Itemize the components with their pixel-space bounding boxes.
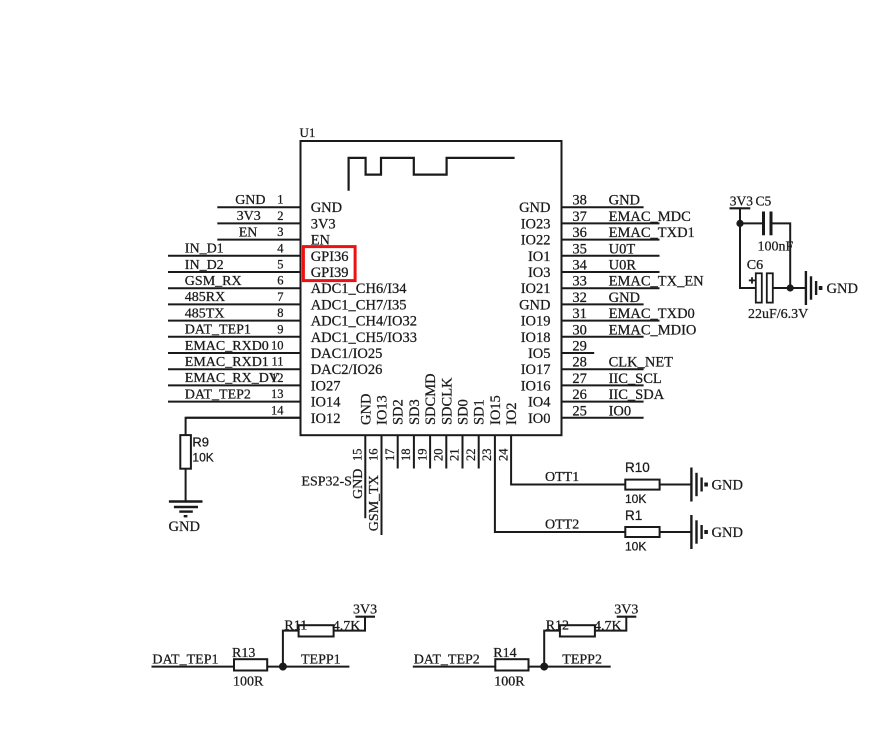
svg-text:DAT_TEP2: DAT_TEP2 [414,652,480,667]
ground at OTT2 [691,515,707,549]
pin 20 SDCLK bottom stub + labels [432,377,456,469]
pin 27 IIC_SCL wire + labels [521,371,662,395]
R12 value 4.7K [594,619,622,634]
svg-text:ADC1_CH4/IO32: ADC1_CH4/IO32 [311,314,417,330]
R11 value 4.7K [333,619,361,634]
pin 18 SD3 bottom stub + labels [399,399,423,468]
pin 14 NC wire + labels [186,403,341,427]
svg-text:EMAC_RX_DV: EMAC_RX_DV [185,371,279,386]
svg-text:14: 14 [271,403,284,417]
svg-text:GND: GND [712,478,743,494]
pin 36 EMAC_TXD1 wire + labels [521,225,695,249]
svg-text:R11: R11 [284,619,307,634]
wire R11 to 3V3 [334,617,365,631]
svg-text:IO16: IO16 [521,378,551,394]
svg-text:5: 5 [277,258,283,272]
svg-text:28: 28 [572,355,587,371]
svg-text:C5: C5 [756,194,772,209]
svg-text:29: 29 [572,339,587,355]
pin 19 SDCMD bottom stub + labels [415,373,439,468]
wire R9 to ground [185,469,187,502]
svg-text:IO15: IO15 [488,395,504,425]
pin 11 EMAC_RXD1 wire + labels [168,355,382,379]
svg-text:30: 30 [572,322,587,338]
power symbol 3V3 at R11 [353,603,377,618]
svg-text:18: 18 [399,449,413,462]
svg-text:22: 22 [464,449,478,462]
svg-text:IO19: IO19 [521,314,551,330]
pin 35 U0T wire + labels [528,241,660,264]
svg-text:33: 33 [572,274,587,290]
net label OTT2 [545,518,579,533]
svg-text:38: 38 [572,193,587,209]
node junction TEPP1 [279,663,287,671]
svg-text:CLK_NET: CLK_NET [609,355,674,371]
R9 value 10K [192,451,213,465]
svg-text:SD0: SD0 [456,399,472,425]
svg-text:IO2: IO2 [504,402,520,425]
svg-text:IO5: IO5 [528,346,551,362]
svg-text:IO21: IO21 [521,281,551,297]
pin 33 EMAC_TX_EN wire + labels [521,274,704,298]
svg-text:U0T: U0T [609,241,636,257]
svg-text:R1: R1 [625,508,642,523]
svg-text:IO4: IO4 [528,395,551,411]
net label TEPP1 [301,652,341,667]
svg-text:35: 35 [572,241,587,257]
wire C5 right leg [773,223,791,288]
svg-text:ADC1_CH5/IO33: ADC1_CH5/IO33 [311,330,417,346]
svg-text:GND: GND [519,200,550,216]
svg-text:GSM_RX: GSM_RX [185,274,242,289]
svg-text:100R: 100R [494,675,525,690]
svg-text:EMAC_RXD1: EMAC_RXD1 [185,355,269,370]
svg-text:OTT2: OTT2 [545,518,579,533]
ESP32-S part value label [301,474,352,489]
R14 value 100R [494,675,525,690]
plus sign of C6 [749,277,756,283]
svg-text:DAC2/IO26: DAC2/IO26 [311,362,383,378]
wire node to ground [790,287,806,289]
svg-text:3V3: 3V3 [353,603,377,618]
svg-text:100nF: 100nF [758,240,794,255]
wire R13 to TEPP1 node [267,666,349,668]
svg-text:IO17: IO17 [521,362,551,378]
svg-text:SD3: SD3 [407,399,423,425]
pin 34 U0R wire + labels [528,258,660,282]
svg-text:GND: GND [235,193,265,208]
net label DAT_TEP1 [152,652,218,667]
svg-text:EMAC_TXD0: EMAC_TXD0 [609,306,695,322]
svg-text:10K: 10K [625,540,646,554]
svg-text:EMAC_MDIO: EMAC_MDIO [609,322,697,338]
svg-text:GND: GND [827,281,858,297]
pin 31 EMAC_TXD0 wire + labels [521,306,695,330]
GND label at OTT2 [712,525,743,541]
pin 3 EN wire + labels [217,225,330,249]
svg-text:IO3: IO3 [528,265,551,281]
svg-text:GSM_TX: GSM_TX [367,475,382,531]
svg-text:22uF/6.3V: 22uF/6.3V [748,307,808,322]
resistor R10 [625,480,659,490]
svg-text:ADC1_CH7/I35: ADC1_CH7/I35 [311,297,407,313]
svg-text:37: 37 [572,209,587,225]
svg-text:U0R: U0R [609,258,637,274]
R11 label [284,619,307,634]
svg-text:EMAC_TX_EN: EMAC_TX_EN [609,274,705,290]
svg-text:IO1: IO1 [528,249,551,265]
svg-text:U1: U1 [300,125,316,140]
U1 reference designator [300,125,316,140]
pin 26 IIC_SDA wire + labels [528,387,665,411]
wire R12 to 3V3 [595,617,626,631]
net label GSM_TX on pin 16 [367,475,382,531]
svg-text:IIC_SCL: IIC_SCL [609,371,662,387]
svg-text:19: 19 [415,449,429,462]
wire C6 to ground node [773,287,790,289]
svg-text:34: 34 [572,258,587,274]
wire pin23 to OTT2 row [495,435,625,532]
pin 21 SD0 bottom stub + labels [448,399,472,468]
svg-text:23: 23 [480,449,494,462]
pin 32 GND wire + labels [519,290,644,314]
node junction C5/C6/GND [787,284,794,291]
R10 value 10K [625,492,646,506]
red highlight box around GPI36/GPI39 [303,247,355,281]
svg-text:IO0: IO0 [528,411,551,427]
wire 3V3 to C5 [740,222,762,224]
svg-text:GND: GND [609,193,640,209]
svg-text:3V3: 3V3 [237,209,261,224]
ground at C6 [806,271,822,305]
svg-text:IO13: IO13 [375,395,391,425]
svg-text:3V3: 3V3 [730,194,753,209]
pin 16 IO13 bottom stub + labels [367,395,391,535]
net label TEPP2 [562,652,602,667]
svg-text:R14: R14 [493,646,516,661]
svg-text:C6: C6 [747,258,763,273]
svg-text:25: 25 [572,403,587,419]
svg-text:ESP32-S: ESP32-S [301,474,352,489]
ground at OTT1 [691,468,707,502]
svg-text:3V3: 3V3 [614,603,638,618]
resistor R11 [299,625,334,636]
svg-text:GND: GND [311,200,342,216]
net label GND on pin 15 [351,469,366,499]
svg-text:TEPP1: TEPP1 [301,652,341,667]
svg-text:GPI36: GPI36 [311,249,349,265]
svg-text:485TX: 485TX [185,306,225,321]
pin 13 DAT_TEP2 wire + labels [168,387,341,411]
svg-text:OTT1: OTT1 [545,470,579,485]
power symbol 3V3 top right [730,194,754,224]
svg-text:1: 1 [277,193,283,207]
svg-text:3: 3 [277,225,283,239]
svg-text:27: 27 [572,371,587,387]
GND label at OTT1 [712,478,743,494]
svg-text:6: 6 [277,274,283,288]
node junction at 3V3 [736,220,743,227]
svg-text:485RX: 485RX [185,290,225,305]
svg-text:GND: GND [712,525,743,541]
pin 4 IN_D1 wire + labels [168,241,349,264]
GND label below R9 [169,519,200,535]
svg-text:IO27: IO27 [311,378,341,394]
svg-text:16: 16 [367,449,381,462]
wire pin24 to OTT1 row [511,435,625,484]
net label DAT_TEP2 [414,652,480,667]
svg-text:31: 31 [572,306,587,322]
svg-text:R12: R12 [546,619,569,634]
svg-text:DAT_TEP2: DAT_TEP2 [185,387,251,402]
svg-text:9: 9 [277,322,283,336]
pin 29 NC wire + labels [528,339,594,363]
resistor R13 [234,659,267,670]
pin 15 GND bottom stub + labels [351,394,375,519]
svg-text:EMAC_MDC: EMAC_MDC [609,209,691,225]
svg-text:12: 12 [271,371,284,385]
C5 value 100nF [758,240,794,255]
wire 3V3 down to C6 [740,223,756,288]
svg-text:GND: GND [609,290,640,306]
pin 25 IO0 wire + labels [528,403,644,427]
resistor R1 [625,527,659,537]
svg-text:GPI39: GPI39 [311,265,349,281]
svg-text:26: 26 [572,387,587,403]
svg-text:IN_D1: IN_D1 [185,242,224,257]
wire R14 to TEPP2 node [529,666,611,668]
svg-text:10: 10 [271,339,284,353]
svg-text:GND: GND [169,519,200,535]
R12 label [546,619,569,634]
svg-text:R13: R13 [232,646,255,661]
svg-text:IO22: IO22 [521,233,551,249]
svg-text:SD2: SD2 [391,399,407,425]
svg-text:DAT_TEP1: DAT_TEP1 [185,323,251,338]
svg-text:IIC_SDA: IIC_SDA [609,387,665,403]
wire R1 to ground [660,531,692,533]
pin 10 EMAC_RXD0 wire + labels [168,339,382,363]
C5 label [756,194,772,209]
pin 28 CLK_NET wire + labels [521,355,673,379]
svg-text:32: 32 [572,290,587,306]
pin 22 SD1 bottom stub + labels [464,399,488,468]
svg-text:11: 11 [271,355,283,369]
svg-text:8: 8 [277,306,283,320]
power symbol 3V3 at R12 [614,603,638,618]
pin 2 3V3 wire + labels [217,209,335,233]
pin 5 IN_D2 wire + labels [168,258,349,282]
svg-text:2: 2 [277,209,283,223]
wire node up to R11 [283,631,299,667]
svg-text:IO14: IO14 [311,395,342,411]
resistor R9 [180,435,191,469]
svg-text:20: 20 [432,449,446,462]
svg-text:R9: R9 [192,435,209,450]
wire pin14 to R9 [186,418,301,435]
svg-text:EMAC_TXD1: EMAC_TXD1 [609,225,695,241]
pin 9 DAT_TEP1 wire + labels [168,322,417,346]
pin 38 GND wire + labels [519,193,644,217]
svg-text:IO12: IO12 [311,411,341,427]
capacitor C6 polarized [756,273,773,302]
net label OTT1 [545,470,579,485]
resistor R14 [495,659,528,670]
pin 23 IO15 bottom stub + labels [480,395,504,461]
svg-text:DAC1/IO25: DAC1/IO25 [311,346,383,362]
resistor R12 [560,625,595,636]
svg-text:DAT_TEP1: DAT_TEP1 [152,652,218,667]
svg-text:7: 7 [277,290,283,304]
svg-text:ADC1_CH6/I34: ADC1_CH6/I34 [311,281,408,297]
C6 value 22uF/6.3V [748,307,808,322]
GND label at C6 [827,281,858,297]
pin 7 485RX wire + labels [168,290,407,314]
R14 label [493,646,516,661]
wire DAT_TEP1 to R13 [152,666,235,668]
svg-text:EN: EN [239,225,258,240]
svg-text:4.7K: 4.7K [333,619,361,634]
svg-text:13: 13 [271,387,284,401]
capacitor C5 [764,212,772,236]
svg-text:10K: 10K [192,451,213,465]
R13 label [232,646,255,661]
svg-text:17: 17 [383,449,397,462]
R1 label [625,508,642,523]
wire node up to R12 [544,631,560,667]
svg-text:IO0: IO0 [609,403,632,419]
svg-text:15: 15 [351,449,365,462]
IC U1 body [301,141,562,435]
svg-text:EMAC_RXD0: EMAC_RXD0 [185,339,269,354]
svg-text:10K: 10K [625,492,646,506]
C6 label [747,258,763,273]
pin 6 GSM_RX wire + labels [168,274,407,298]
svg-text:21: 21 [448,449,462,462]
svg-text:4.7K: 4.7K [594,619,622,634]
pin 24 IO2 bottom stub + labels [496,402,520,461]
svg-text:IO23: IO23 [521,216,551,232]
svg-text:GND: GND [358,394,374,425]
svg-text:100R: 100R [233,675,264,690]
svg-text:4: 4 [277,241,284,255]
svg-text:R10: R10 [625,460,650,475]
svg-text:TEPP2: TEPP2 [562,652,602,667]
wire R10 to ground [660,484,692,486]
node junction TEPP2 [540,663,548,671]
svg-text:IO18: IO18 [521,330,551,346]
ground below R9 [169,502,203,517]
svg-text:SDCMD: SDCMD [423,373,439,425]
pin 37 EMAC_MDC wire + labels [521,209,691,233]
pin 8 485TX wire + labels [168,306,417,330]
svg-text:GND: GND [519,297,550,313]
pin 17 SD2 bottom stub + labels [383,399,407,468]
svg-text:SD1: SD1 [472,399,488,425]
svg-text:24: 24 [496,448,510,461]
svg-text:SDCLK: SDCLK [439,377,455,425]
R13 value 100R [233,675,264,690]
R10 label [625,460,650,475]
R1 value 10K [625,540,646,554]
pin 1 GND wire + labels [217,193,342,217]
R9 label [192,435,209,450]
svg-text:3V3: 3V3 [311,216,336,232]
antenna trace inside U1 [349,158,515,191]
pin 30 EMAC_MDIO wire + labels [521,322,697,346]
svg-text:IN_D2: IN_D2 [185,258,224,273]
svg-text:GND: GND [351,469,366,499]
wire DAT_TEP2 to R14 [413,666,496,668]
svg-text:36: 36 [572,225,587,241]
pin 12 EMAC_RX_DV wire + labels [168,371,341,395]
